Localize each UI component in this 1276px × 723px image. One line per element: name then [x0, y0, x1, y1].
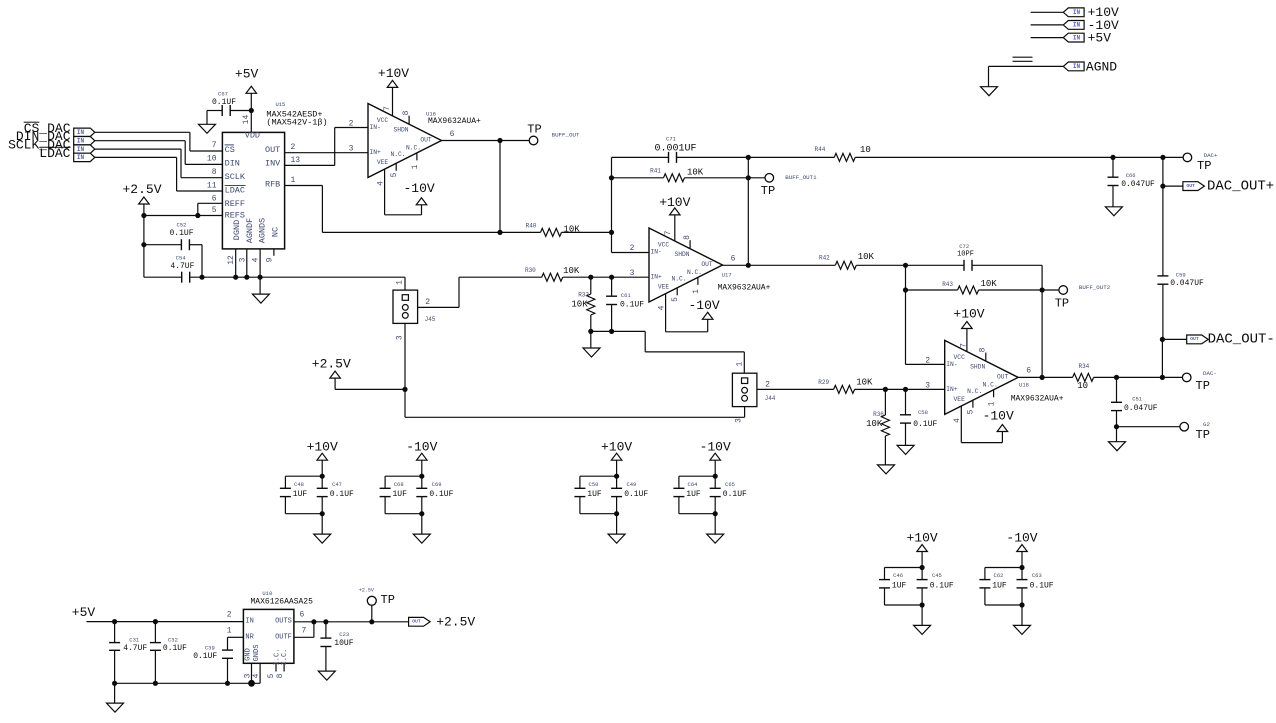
svg-text:IN: IN: [245, 618, 253, 626]
svg-text:R43: R43: [942, 281, 953, 288]
svg-text:IN: IN: [77, 129, 85, 136]
svg-text:6: 6: [300, 611, 305, 620]
svg-text:OUT: OUT: [420, 137, 432, 144]
svg-text:0.1UF: 0.1UF: [193, 652, 217, 661]
svg-text:2: 2: [291, 143, 296, 152]
svg-text:DAC_OUT-: DAC_OUT-: [1208, 332, 1275, 348]
svg-text:VCC: VCC: [658, 242, 670, 249]
svg-text:1: 1: [736, 362, 745, 367]
svg-text:BUFF_OUT2: BUFF_OUT2: [1079, 284, 1111, 291]
svg-text:+10V: +10V: [601, 440, 632, 455]
svg-text:C51: C51: [1132, 396, 1143, 403]
svg-text:C54: C54: [176, 255, 187, 262]
svg-text:VCC: VCC: [377, 117, 389, 124]
svg-text:NC: NC: [271, 227, 281, 237]
svg-text:TP: TP: [1196, 379, 1210, 393]
svg-text:1: 1: [411, 164, 420, 169]
svg-text:U10: U10: [262, 590, 272, 597]
svg-text:0.001UF: 0.001UF: [654, 143, 696, 154]
svg-text:13: 13: [291, 156, 301, 165]
svg-text:C65: C65: [725, 481, 735, 488]
svg-text:N.C.: N.C.: [687, 269, 702, 276]
svg-text:1: 1: [291, 176, 296, 185]
svg-text:GND: GND: [244, 648, 252, 661]
svg-text:3: 3: [925, 381, 930, 390]
svg-text:SHDN: SHDN: [393, 127, 408, 134]
svg-text:7: 7: [383, 106, 392, 111]
svg-text:+2.5V: +2.5V: [312, 357, 351, 372]
svg-text:BUFF_OUT: BUFF_OUT: [552, 132, 580, 139]
svg-text:2: 2: [425, 298, 430, 307]
svg-text:IN+: IN+: [651, 274, 663, 281]
svg-text:LDAC: LDAC: [225, 185, 245, 195]
svg-text:N.C.: N.C.: [967, 388, 982, 395]
svg-text:+2.5V: +2.5V: [359, 588, 374, 594]
svg-text:R34: R34: [1078, 363, 1089, 370]
svg-text:0.1UF: 0.1UF: [163, 644, 187, 653]
svg-text:IN: IN: [1073, 34, 1081, 41]
svg-text:R33: R33: [578, 291, 589, 298]
svg-text:-10V: -10V: [688, 298, 719, 313]
svg-text:3: 3: [349, 145, 354, 154]
svg-text:1: 1: [988, 401, 997, 406]
svg-text:U18: U18: [1019, 381, 1029, 388]
svg-text:1: 1: [227, 626, 232, 635]
svg-text:R42: R42: [819, 254, 830, 261]
svg-text:1UF: 1UF: [393, 490, 408, 499]
svg-text:DAC_OUT+: DAC_OUT+: [1207, 178, 1274, 194]
svg-text:3: 3: [396, 335, 405, 340]
svg-text:14: 14: [242, 115, 251, 125]
svg-text:I.C.: I.C.: [281, 649, 289, 666]
svg-text:1: 1: [396, 280, 405, 285]
svg-text:10PF: 10PF: [957, 251, 974, 259]
svg-text:SHDN: SHDN: [970, 363, 985, 370]
svg-text:OUTS: OUTS: [275, 618, 292, 626]
svg-text:IN+: IN+: [370, 149, 382, 156]
svg-text:C68: C68: [394, 481, 404, 488]
svg-text:J45: J45: [425, 316, 436, 323]
svg-text:0.1UF: 0.1UF: [723, 490, 747, 499]
svg-text:DIN: DIN: [225, 158, 240, 168]
svg-text:VEE: VEE: [954, 396, 966, 403]
svg-text:N.C.: N.C.: [983, 381, 998, 388]
svg-text:TP: TP: [527, 123, 541, 137]
svg-text:R41: R41: [650, 168, 661, 175]
svg-text:2: 2: [925, 356, 930, 365]
svg-text:0.1UF: 0.1UF: [624, 490, 648, 499]
svg-text:C49: C49: [626, 481, 636, 488]
svg-text:LDAC: LDAC: [39, 146, 70, 161]
svg-text:IN: IN: [77, 146, 85, 153]
svg-text:TP: TP: [1196, 428, 1210, 442]
svg-text:+5V: +5V: [72, 605, 96, 620]
svg-text:0.047UF: 0.047UF: [1124, 404, 1158, 413]
svg-text:C48: C48: [294, 481, 304, 488]
svg-text:IN-: IN-: [651, 249, 662, 256]
svg-text:2: 2: [349, 120, 354, 129]
svg-text:7: 7: [212, 141, 217, 150]
svg-text:OUT: OUT: [701, 261, 713, 268]
svg-text:1UF: 1UF: [293, 490, 308, 499]
svg-text:0.1UF: 0.1UF: [330, 490, 354, 499]
svg-text:5: 5: [390, 172, 399, 177]
svg-text:8: 8: [402, 110, 411, 115]
svg-text:0.1UF: 0.1UF: [169, 229, 193, 238]
svg-text:10K: 10K: [858, 252, 875, 262]
svg-text:5: 5: [967, 409, 976, 414]
svg-text:C39: C39: [205, 645, 215, 652]
svg-text:IN: IN: [1073, 22, 1081, 29]
svg-text:5: 5: [671, 297, 680, 302]
svg-text:INV: INV: [265, 158, 281, 168]
svg-text:IN+: IN+: [946, 386, 958, 393]
svg-text:C66: C66: [1126, 172, 1136, 179]
svg-text:8: 8: [276, 673, 285, 678]
svg-text:U15: U15: [275, 101, 285, 108]
svg-text:MAX9632AUA+: MAX9632AUA+: [1011, 394, 1064, 403]
svg-text:IN: IN: [77, 138, 85, 145]
svg-text:C58: C58: [918, 409, 928, 416]
svg-text:-10V: -10V: [700, 440, 731, 455]
svg-text:VCC: VCC: [954, 354, 966, 361]
svg-text:AGNDF: AGNDF: [245, 218, 255, 244]
svg-text:C63: C63: [1032, 572, 1042, 579]
svg-text:0.047UF: 0.047UF: [1170, 279, 1204, 288]
svg-text:+10V: +10V: [378, 66, 409, 81]
svg-text:-10V: -10V: [1006, 530, 1037, 545]
svg-text:0.1UF: 0.1UF: [1030, 582, 1054, 591]
svg-text:10K: 10K: [981, 279, 998, 289]
svg-text:REFF: REFF: [225, 199, 245, 209]
svg-text:R29: R29: [818, 379, 829, 386]
svg-text:0.1UF: 0.1UF: [429, 490, 453, 499]
svg-text:N.C.: N.C.: [390, 151, 405, 158]
svg-text:+10V: +10V: [307, 440, 338, 455]
svg-text:10K: 10K: [687, 167, 704, 177]
svg-text:1: 1: [692, 289, 701, 294]
svg-text:OUT: OUT: [997, 373, 1009, 380]
svg-text:C50: C50: [589, 481, 599, 488]
svg-text:-10V: -10V: [406, 440, 437, 455]
svg-text:VEE: VEE: [377, 159, 389, 166]
svg-text:C67: C67: [218, 91, 228, 98]
svg-text:IN: IN: [1073, 9, 1081, 16]
svg-text:AGNDS: AGNDS: [258, 218, 268, 244]
svg-text:2: 2: [630, 244, 635, 253]
svg-text:6: 6: [212, 195, 217, 204]
svg-text:4: 4: [252, 257, 261, 262]
svg-text:2: 2: [765, 381, 770, 390]
svg-text:8: 8: [683, 235, 692, 240]
svg-text:10K: 10K: [856, 378, 873, 388]
svg-text:G2: G2: [1203, 421, 1210, 428]
svg-text:C72: C72: [959, 243, 969, 250]
svg-text:C47: C47: [332, 481, 342, 488]
svg-text:10: 10: [207, 155, 217, 164]
svg-text:-10V: -10V: [983, 409, 1014, 424]
svg-text:CS: CS: [225, 145, 235, 155]
svg-text:BUFF_OUT1: BUFF_OUT1: [785, 174, 817, 181]
svg-text:8: 8: [212, 168, 217, 177]
svg-text:OUT: OUT: [1190, 336, 1199, 342]
svg-text:10UF: 10UF: [334, 639, 353, 648]
svg-text:0.047UF: 0.047UF: [1121, 180, 1155, 189]
svg-text:DGND: DGND: [232, 220, 242, 240]
svg-text:TP: TP: [1055, 297, 1069, 311]
svg-text:MAX9632AUA+: MAX9632AUA+: [718, 283, 771, 292]
svg-text:U17: U17: [722, 272, 732, 279]
svg-text:+2.5V: +2.5V: [122, 182, 161, 197]
svg-text:8: 8: [979, 347, 988, 352]
svg-text:10K: 10K: [866, 419, 883, 429]
svg-text:0.1UF: 0.1UF: [212, 98, 236, 107]
svg-text:C45: C45: [932, 572, 942, 579]
svg-text:R36: R36: [873, 411, 884, 418]
svg-text:5: 5: [212, 206, 217, 215]
svg-text:TP: TP: [381, 593, 395, 607]
svg-text:GNDS: GNDS: [253, 645, 261, 662]
svg-text:OUT: OUT: [265, 145, 280, 155]
svg-text:R30: R30: [525, 267, 536, 274]
svg-text:4.7UF: 4.7UF: [123, 644, 147, 653]
svg-text:0.1UF: 0.1UF: [913, 420, 937, 429]
svg-text:MAX6126AASA25: MAX6126AASA25: [251, 597, 314, 606]
svg-text:R44: R44: [815, 146, 826, 153]
svg-text:9: 9: [265, 257, 274, 262]
svg-text:C52: C52: [177, 221, 187, 228]
svg-text:(MAX542V-1β): (MAX542V-1β): [266, 117, 327, 127]
svg-text:C59: C59: [1176, 272, 1186, 279]
svg-text:+5V: +5V: [1088, 31, 1112, 46]
svg-text:MAX9632AUA+: MAX9632AUA+: [428, 117, 481, 126]
svg-text:11: 11: [207, 181, 217, 190]
svg-text:10: 10: [1077, 381, 1088, 391]
svg-text:IN-: IN-: [946, 361, 957, 368]
svg-text:TP: TP: [761, 184, 775, 198]
svg-text:-10V: -10V: [403, 181, 434, 196]
svg-text:2: 2: [227, 611, 232, 620]
svg-text:OUT: OUT: [1186, 183, 1195, 189]
svg-text:C32: C32: [168, 636, 178, 643]
svg-text:SHDN: SHDN: [674, 251, 689, 258]
svg-text:10K: 10K: [564, 224, 581, 234]
svg-text:3: 3: [238, 257, 247, 262]
svg-text:C46: C46: [893, 572, 903, 579]
svg-text:+10V: +10V: [953, 306, 984, 321]
svg-text:1UF: 1UF: [587, 490, 602, 499]
svg-text:NR: NR: [245, 633, 254, 641]
svg-text:1UF: 1UF: [892, 582, 907, 591]
svg-text:6: 6: [450, 130, 455, 139]
svg-text:N.C.: N.C.: [671, 276, 686, 283]
svg-text:10: 10: [860, 145, 871, 155]
svg-text:1UF: 1UF: [992, 582, 1007, 591]
svg-text:C69: C69: [432, 481, 442, 488]
svg-text:+10V: +10V: [906, 530, 937, 545]
svg-text:C64: C64: [688, 481, 699, 488]
svg-text:7: 7: [302, 626, 307, 635]
svg-text:4.7UF: 4.7UF: [170, 262, 194, 271]
svg-text:TP: TP: [1197, 159, 1211, 173]
svg-text:3: 3: [735, 418, 744, 423]
svg-text:RFB: RFB: [265, 180, 280, 190]
svg-text:C31: C31: [129, 636, 140, 643]
svg-text:0.1UF: 0.1UF: [930, 582, 954, 591]
svg-text:N.C.: N.C.: [406, 145, 421, 152]
svg-text:IN: IN: [1073, 63, 1081, 70]
svg-text:REFS: REFS: [225, 211, 245, 221]
svg-text:VEE: VEE: [658, 284, 670, 291]
svg-text:IN: IN: [77, 154, 85, 161]
svg-text:C62: C62: [994, 572, 1004, 579]
svg-text:10K: 10K: [571, 300, 588, 310]
svg-text:1UF: 1UF: [686, 490, 701, 499]
svg-text:R40: R40: [526, 223, 537, 230]
svg-text:OUTF: OUTF: [275, 633, 292, 641]
svg-text:C61: C61: [621, 292, 632, 299]
svg-text:C71: C71: [666, 136, 677, 143]
svg-text:6: 6: [731, 254, 736, 263]
svg-text:DAC-: DAC-: [1203, 370, 1217, 377]
svg-text:AGND: AGND: [1086, 59, 1117, 74]
svg-text:IN-: IN-: [370, 124, 381, 131]
svg-text:+2.5V: +2.5V: [436, 614, 475, 629]
svg-text:C23: C23: [339, 631, 349, 638]
svg-text:7: 7: [664, 230, 673, 235]
svg-text:+5V: +5V: [235, 67, 259, 82]
svg-text:6: 6: [1026, 367, 1031, 376]
svg-text:0.1UF: 0.1UF: [620, 300, 644, 309]
svg-text:OUT: OUT: [412, 619, 421, 625]
svg-text:12: 12: [227, 255, 236, 265]
svg-text:5: 5: [267, 673, 276, 678]
svg-text:SCLK: SCLK: [225, 172, 246, 182]
svg-text:VDD: VDD: [245, 130, 260, 140]
svg-text:10K: 10K: [563, 266, 580, 276]
svg-text:J44: J44: [765, 395, 776, 402]
